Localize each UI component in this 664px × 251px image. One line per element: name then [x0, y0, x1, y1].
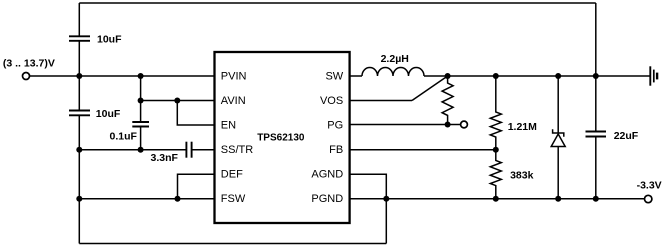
capacitor C4 3.3nF [186, 142, 191, 158]
svg-text:TPS62130: TPS62130 [257, 132, 305, 143]
wire PG row [350, 124, 448, 126]
wire 22uF bottom lead [595, 137, 597, 199]
node junction PGND-AGND [383, 196, 389, 202]
node junction rail-R2 [493, 73, 499, 79]
diode D1 zener lead bottom [557, 147, 559, 199]
wire top rail [79, 2, 596, 4]
diode D1 zener body [551, 134, 565, 147]
terminal input open circle [23, 73, 30, 80]
wire AGND branch [350, 174, 387, 199]
resistor R1 (SW to PG pull-up) [442, 76, 453, 125]
capacitor C5 22uF [586, 132, 607, 137]
svg-text:PVIN: PVIN [221, 70, 247, 82]
svg-text:22uF: 22uF [614, 130, 639, 142]
capacitor C3 0.1uF [132, 122, 149, 127]
wire AVIN to C3 [140, 101, 142, 123]
node junction AVIN-EN [174, 98, 180, 104]
wire left column top to C1 [78, 3, 80, 36]
wire PG to terminal [448, 124, 461, 126]
wire SS/TR row left [79, 149, 186, 151]
svg-text:2.2µH: 2.2µH [381, 53, 409, 65]
wire PGND output rail [350, 198, 645, 200]
svg-text:VOS: VOS [320, 95, 343, 107]
wire AVIN row [141, 100, 215, 102]
svg-text:EN: EN [221, 119, 236, 131]
node junction SS/TR-left column [76, 147, 82, 153]
wire FSW row [79, 198, 214, 200]
terminal output open circle [645, 195, 652, 202]
node junction FSW-DEF [175, 196, 181, 202]
resistor R3 383k [490, 150, 501, 199]
IC U1 TPS62130 box [215, 52, 350, 223]
wire C3 to SS/TR row [140, 127, 142, 150]
node junction PGND-R3 [493, 196, 499, 202]
wire bottom rail [79, 243, 386, 245]
svg-text:(3 .. 13.7)V: (3 .. 13.7)V [3, 58, 55, 70]
svg-text:0.1uF: 0.1uF [110, 130, 138, 142]
resistor R2 1.21M [490, 76, 501, 150]
svg-text:SW: SW [325, 70, 343, 82]
wire C1 to VIN rail [78, 41, 80, 76]
wire 22uF top lead [595, 76, 597, 132]
diode D1 zener lead top [557, 76, 559, 133]
svg-text:10uF: 10uF [97, 33, 122, 45]
node junction rail-left column [76, 73, 82, 79]
wire left column FSW row to bottom [78, 199, 80, 244]
svg-text:FB: FB [329, 144, 343, 156]
svg-text:AGND: AGND [311, 169, 343, 181]
wire output top rail [424, 75, 650, 77]
ground symbol [650, 66, 657, 85]
node junction FB-R2-R3 [493, 147, 499, 153]
capacitor C1 10uF (input, upper) [69, 36, 90, 41]
diode D1 zener cathode bar [553, 129, 564, 136]
wire VOS row [350, 100, 412, 102]
node junction FSW-left column [76, 196, 82, 202]
inductor L1 2.2uH [362, 68, 424, 77]
svg-text:-3.3V: -3.3V [637, 179, 662, 191]
svg-text:383k: 383k [510, 170, 534, 182]
svg-text:AVIN: AVIN [221, 95, 246, 107]
wire VOS diagonal [412, 76, 448, 101]
svg-text:3.3nF: 3.3nF [151, 152, 179, 164]
wire left column SS/TR to FSW row [78, 150, 80, 199]
wire rail to AVIN column [140, 76, 142, 101]
wire top rail right drop [595, 3, 597, 76]
svg-text:FSW: FSW [221, 193, 246, 205]
wire bottom rail up to PGND row [385, 199, 387, 244]
node junction rail-AVIN column [138, 73, 144, 79]
wire left column C2 to SS/TR row [78, 115, 80, 149]
node junction rail-D1 [555, 73, 561, 79]
wire C4 to SS/TR pin [192, 149, 215, 151]
node junction PGND-C5 [593, 196, 599, 202]
svg-text:SS/TR: SS/TR [221, 144, 253, 156]
wire left column rail to C2 [78, 76, 80, 111]
node junction PGND-D1 [555, 196, 561, 202]
terminal PG open circle [461, 121, 468, 128]
svg-text:PGND: PGND [311, 193, 343, 205]
wire DEF branch [178, 174, 215, 199]
node junction AVIN-C3 [138, 98, 144, 104]
node junction rail-C5 [593, 73, 599, 79]
wire EN branch [177, 101, 214, 126]
node junction SW-R1 [445, 73, 451, 79]
capacitor C2 10uF (input, lower) [69, 111, 90, 116]
svg-text:PG: PG [327, 119, 343, 131]
node junction SS/TR-C3 [138, 147, 144, 153]
svg-text:DEF: DEF [221, 169, 243, 181]
wire FB row [350, 149, 496, 151]
wire VIN rail [30, 75, 215, 77]
svg-text:1.21M: 1.21M [508, 121, 537, 133]
svg-text:10uF: 10uF [96, 108, 121, 120]
node junction PG-R1 [445, 122, 451, 128]
wire SW lead [350, 75, 362, 77]
